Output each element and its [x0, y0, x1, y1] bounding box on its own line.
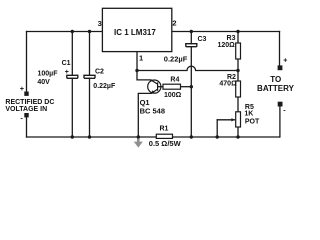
capacitor C2	[84, 75, 95, 78]
node C1 top	[71, 30, 74, 33]
svg-text:1: 1	[139, 53, 143, 62]
wire top rail right (pin 2 to battery)	[172, 31, 280, 33]
node emitter ground junction	[137, 135, 140, 138]
node C3 top	[190, 30, 193, 33]
node C2 top	[88, 30, 91, 33]
resistor R1	[156, 134, 172, 138]
node wiper bottom rail junction	[216, 135, 219, 138]
svg-text:0.22µF: 0.22µF	[164, 54, 188, 63]
svg-text:C3: C3	[198, 36, 207, 43]
svg-text:BC 548: BC 548	[140, 107, 165, 116]
node R4 right junction	[190, 85, 193, 88]
wire minus input to bottom rail	[26, 117, 28, 137]
svg-text:RECTIFIED DC: RECTIFIED DC	[5, 99, 54, 106]
svg-text:470Ω: 470Ω	[219, 81, 237, 88]
svg-text:R4: R4	[170, 76, 179, 83]
wire C2 bottom lead	[89, 78, 91, 137]
svg-text:R3: R3	[227, 35, 236, 42]
node R3/R2 junction	[236, 69, 239, 72]
svg-text:BATTERY: BATTERY	[257, 84, 295, 93]
wire C2 top lead	[89, 32, 91, 76]
resistor R3	[236, 43, 241, 59]
node ADJ junction	[135, 69, 138, 72]
wire R2 bottom to R5 top	[237, 97, 239, 112]
ground symbol	[134, 139, 143, 148]
svg-text:IC 1 LM317: IC 1 LM317	[114, 28, 156, 37]
wire ADJ horizontal with hop over C3 lead	[137, 66, 238, 70]
svg-text:R1: R1	[160, 125, 169, 132]
resistor R4	[163, 84, 181, 89]
wire collector path	[137, 71, 151, 80]
svg-text:C1: C1	[62, 60, 71, 67]
battery - terminal	[278, 102, 283, 107]
wire right rail to + battery	[279, 32, 281, 66]
node C3 bottom rail junction	[190, 135, 193, 138]
svg-text:0.5 Ω/5W: 0.5 Ω/5W	[149, 139, 182, 148]
wire R2 top lead	[237, 71, 239, 82]
svg-text:+: +	[20, 86, 24, 93]
svg-text:VOLTAGE IN: VOLTAGE IN	[5, 106, 47, 113]
emitter arrow of Q1	[151, 90, 155, 94]
svg-text:+: +	[283, 58, 287, 65]
input - terminal	[24, 113, 28, 117]
wire top rail left	[27, 31, 103, 33]
IC1 LM317 box	[102, 8, 171, 51]
svg-text:+: +	[65, 69, 69, 76]
svg-text:100µF: 100µF	[38, 70, 59, 77]
svg-text:100Ω: 100Ω	[164, 92, 182, 99]
svg-text:0.22µF: 0.22µF	[93, 83, 116, 90]
capacitor C1	[67, 75, 78, 78]
svg-text:1K: 1K	[244, 111, 253, 118]
transistor Q1	[148, 80, 161, 93]
svg-text:120Ω: 120Ω	[218, 42, 236, 49]
node R5 bottom rail junction	[236, 135, 239, 138]
wire base to R4	[158, 86, 163, 88]
resistor R2	[236, 81, 241, 97]
battery + terminal	[278, 65, 283, 70]
wire wiper to bottom rail	[216, 120, 218, 137]
wire R3 bottom lead	[237, 59, 239, 71]
wire R3 top lead	[237, 32, 239, 44]
wire - battery to bottom rail	[279, 106, 281, 137]
wiper arrow of R5	[231, 118, 234, 121]
svg-text:2: 2	[172, 19, 176, 28]
svg-text:POT: POT	[245, 118, 260, 125]
wire ADJ pin1 vertical	[136, 52, 138, 71]
wire left input rail	[26, 32, 28, 92]
svg-text:C2: C2	[95, 69, 104, 76]
wire emitter path to ground rail	[138, 93, 151, 137]
capacitor C3	[186, 44, 197, 47]
wire C3 bottom lead down to bottom rail	[190, 47, 192, 137]
svg-text:3: 3	[98, 19, 102, 28]
svg-text:Q1: Q1	[140, 98, 150, 107]
wire pot wiper	[217, 119, 234, 121]
svg-text:40V: 40V	[37, 79, 50, 86]
node C2 bottom	[88, 135, 91, 138]
input + terminal	[24, 92, 28, 96]
wire R5 bottom lead	[237, 127, 239, 137]
wire C3 top lead	[190, 32, 192, 44]
node R3 top	[236, 30, 239, 33]
wire bottom rail	[27, 136, 280, 138]
wire R4 right to junction	[181, 86, 192, 88]
junction dots	[71, 30, 240, 139]
wire C1 bottom lead	[71, 78, 73, 137]
potentiometer R5	[236, 112, 241, 127]
node C1 bottom	[71, 135, 74, 138]
wire C1 top lead	[71, 32, 73, 76]
